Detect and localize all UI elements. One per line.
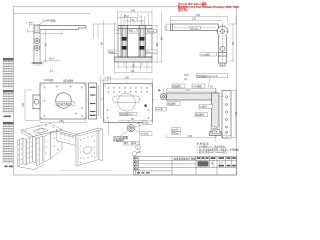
svg-text:仅用于评估。: 仅用于评估。 xyxy=(177,8,188,12)
svg-text:100: 100 xyxy=(22,102,25,107)
svg-text:18.5: 18.5 xyxy=(184,74,189,77)
svg-text:140: 140 xyxy=(125,76,130,79)
svg-text:M5-6H: M5-6H xyxy=(148,31,155,33)
svg-text:M5-6H: M5-6H xyxy=(191,28,198,30)
svg-text:M5-6H: M5-6H xyxy=(142,123,149,125)
svg-text:1.6x45°倒角: 1.6x45°倒角 xyxy=(42,19,56,23)
svg-text:45.2: 45.2 xyxy=(124,15,129,18)
svg-text:150: 150 xyxy=(235,111,238,116)
svg-text:M5-6H: M5-6H xyxy=(147,52,154,54)
svg-text:技 术 要 求: 技 术 要 求 xyxy=(197,142,210,146)
svg-text:直角支撑座加工图纸: 直角支撑座加工图纸 xyxy=(174,157,197,161)
svg-text:1:2: 1:2 xyxy=(219,161,223,165)
svg-text:140: 140 xyxy=(131,70,136,73)
svg-text:140: 140 xyxy=(59,120,64,123)
svg-text:223: 223 xyxy=(196,14,201,17)
svg-text:150: 150 xyxy=(188,135,193,138)
svg-text:不磕碰伤: 不磕碰伤 xyxy=(113,138,124,143)
svg-text:25.4: 25.4 xyxy=(49,58,54,61)
svg-text:0.10 A: 0.10 A xyxy=(223,136,230,139)
svg-text:140: 140 xyxy=(131,9,136,12)
svg-text:1:1: 1:1 xyxy=(184,77,188,81)
svg-text:215: 215 xyxy=(192,18,197,21)
svg-text:1:1: 1:1 xyxy=(50,68,55,72)
